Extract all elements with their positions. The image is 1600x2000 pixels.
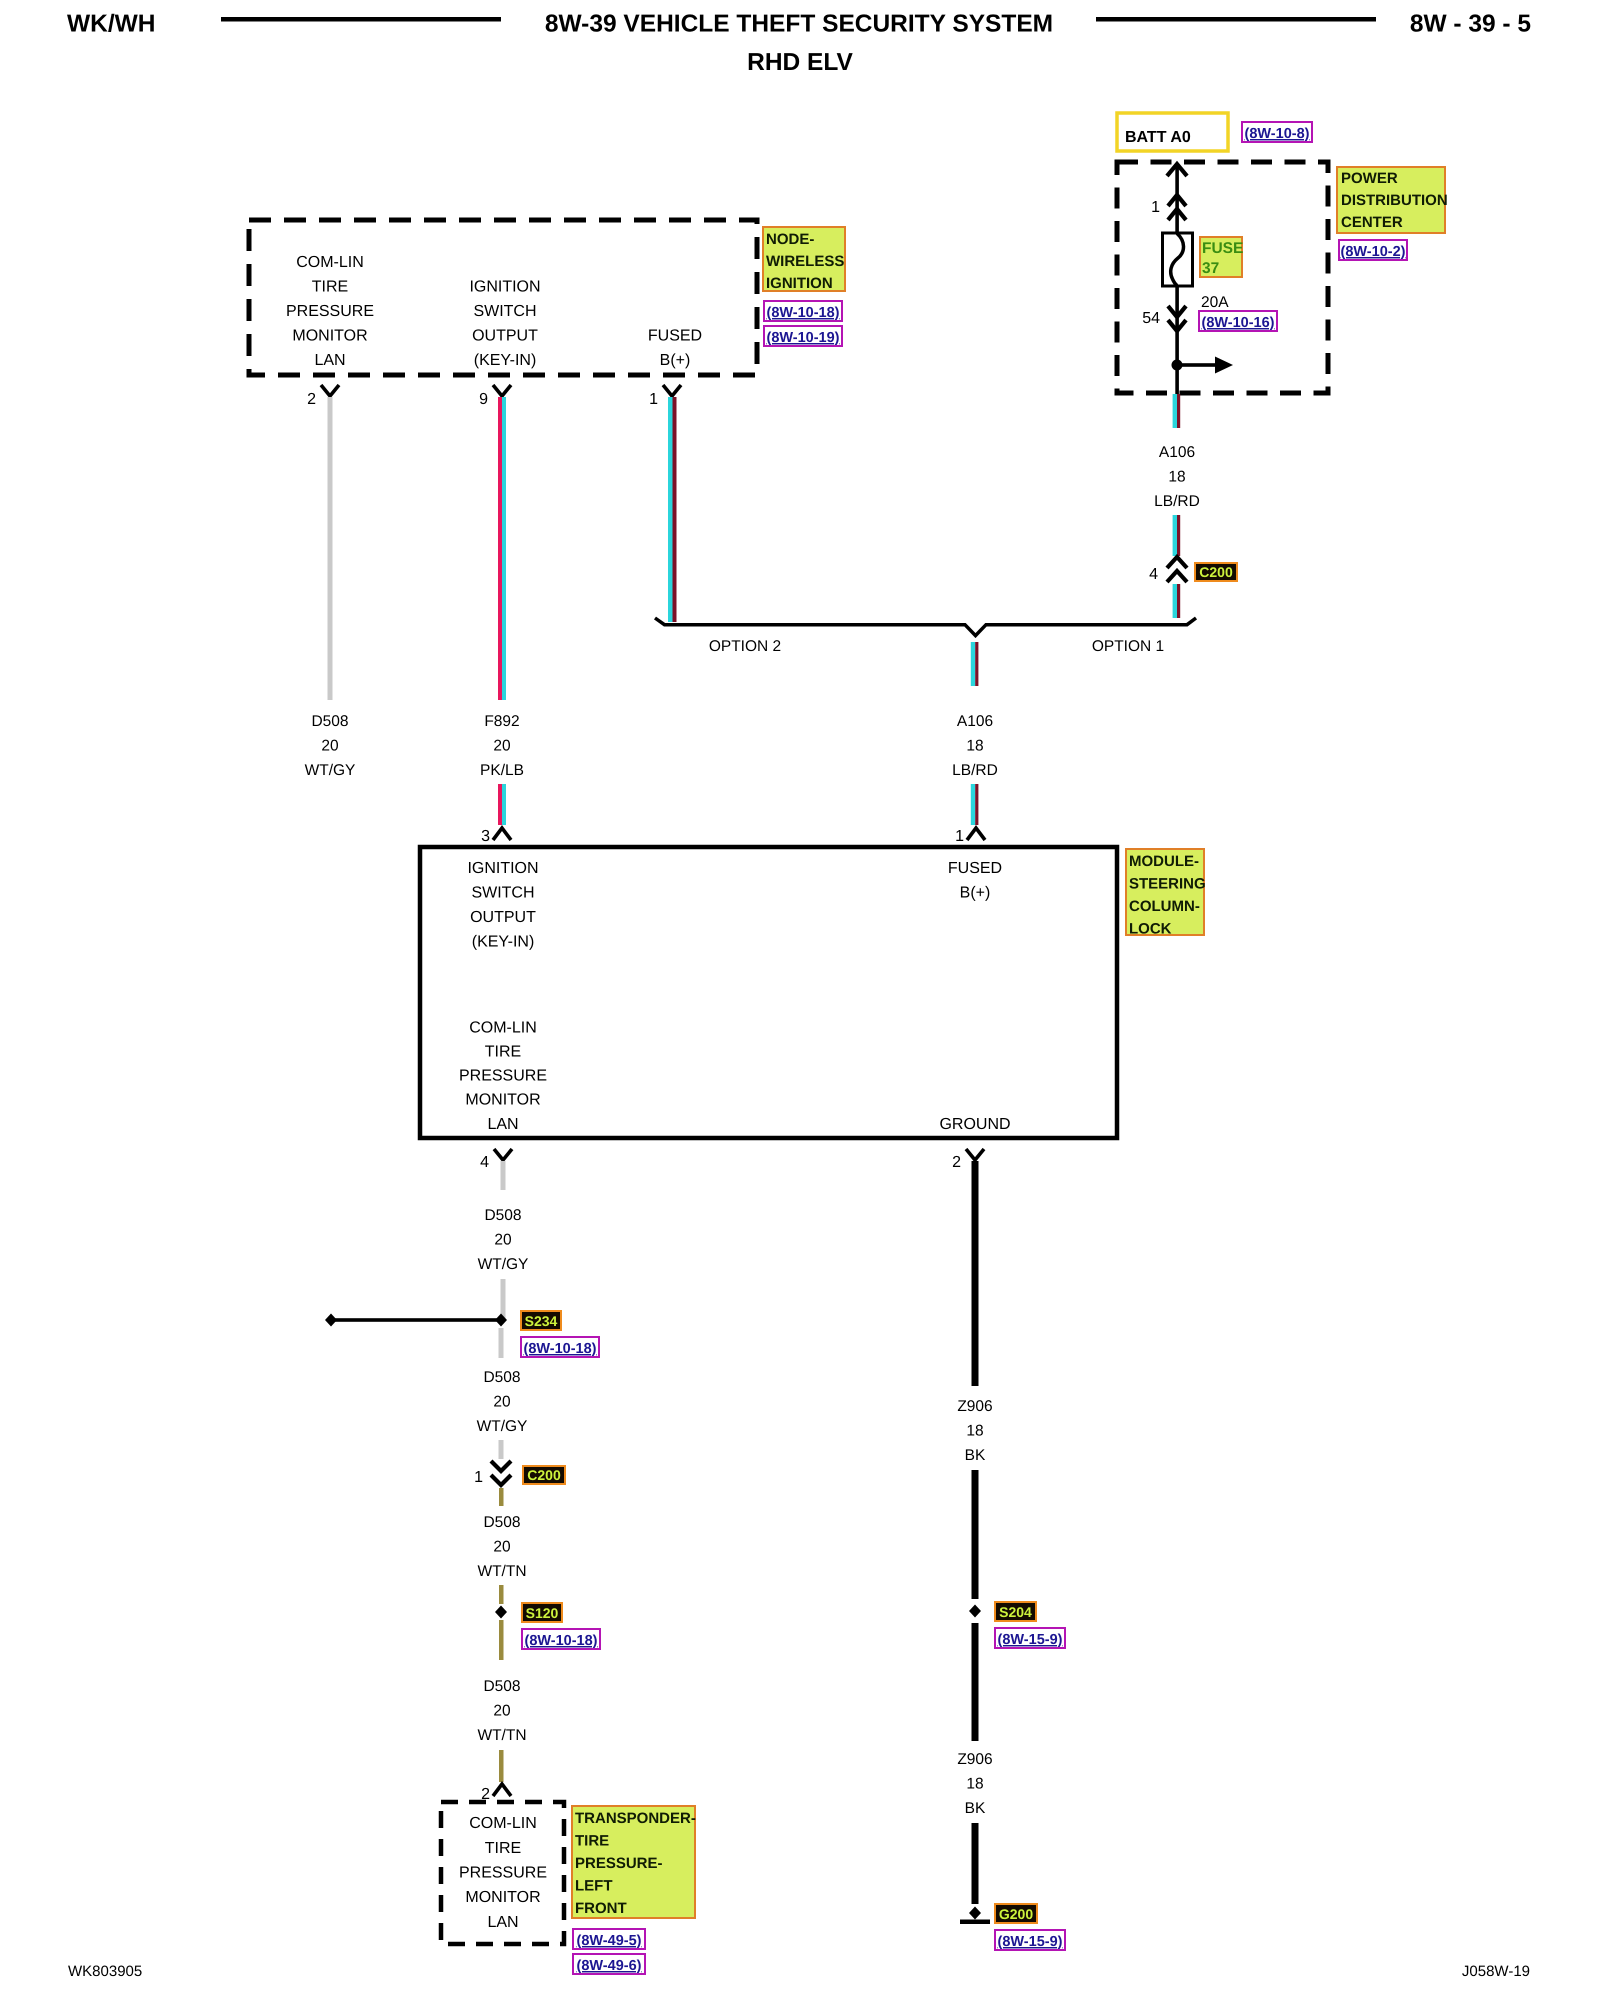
svg-text:TIRE: TIRE: [485, 1840, 521, 1857]
svg-text:A106: A106: [957, 713, 993, 730]
svg-text:1: 1: [955, 828, 964, 845]
svg-text:20A: 20A: [1201, 294, 1229, 311]
svg-text:MONITOR: MONITOR: [465, 1092, 540, 1109]
svg-text:LAN: LAN: [487, 1914, 518, 1931]
wire below S234: [499, 1328, 504, 1358]
transponder pin 2: [493, 1784, 511, 1796]
svg-text:BK: BK: [965, 1800, 986, 1817]
link 8W-10-18: [764, 301, 842, 321]
svg-text:G200: G200: [999, 1906, 1033, 1922]
connector C200 chevrons (pin 1, down): [491, 1461, 511, 1485]
splice S120: [495, 1606, 507, 1619]
header rule left: [221, 17, 501, 22]
wire below S120: [499, 1620, 504, 1660]
svg-text:COM-LIN: COM-LIN: [469, 1815, 537, 1832]
battery feed box BATT A0: [1117, 113, 1228, 151]
svg-text:MODULE-: MODULE-: [1129, 853, 1199, 870]
svg-text:(8W-15-9): (8W-15-9): [998, 1632, 1063, 1648]
svg-text:B(+): B(+): [660, 352, 691, 369]
fuse 37 label: [1200, 237, 1242, 277]
wire D508 WT/GY from node pin 2: [328, 397, 333, 700]
svg-text:20: 20: [493, 738, 511, 755]
svg-text:1: 1: [649, 391, 658, 408]
svg-text:LB/RD: LB/RD: [952, 762, 998, 779]
svg-text:FUSED: FUSED: [948, 860, 1002, 877]
svg-text:(8W-10-2): (8W-10-2): [1341, 244, 1406, 260]
svg-text:SWITCH: SWITCH: [471, 885, 534, 902]
svg-text:3: 3: [481, 828, 490, 845]
svg-text:LOCK: LOCK: [1129, 921, 1172, 938]
svg-text:LAN: LAN: [487, 1116, 518, 1133]
svg-text:S234: S234: [525, 1313, 558, 1329]
svg-text:Z906: Z906: [957, 1751, 992, 1768]
node pin 1: [663, 385, 681, 396]
wire A106 below brace: [971, 642, 975, 686]
svg-text:(KEY-IN): (KEY-IN): [474, 352, 537, 369]
svg-text:BATT A0: BATT A0: [1125, 129, 1191, 146]
connector label C200: [523, 1466, 565, 1484]
power distribution center dashed box: [1117, 162, 1328, 393]
svg-text:WIRELESS: WIRELESS: [766, 253, 844, 270]
svg-text:S204: S204: [999, 1604, 1032, 1620]
node pin 9: [493, 385, 511, 396]
svg-text:(8W-10-16): (8W-10-16): [1201, 315, 1274, 331]
svg-text:COLUMN-: COLUMN-: [1129, 898, 1200, 915]
wire resume: [501, 1279, 506, 1320]
svg-text:1: 1: [1151, 199, 1160, 216]
svg-text:(8W-10-8): (8W-10-8): [1245, 126, 1310, 142]
arrow up to BATT A0: [1167, 164, 1187, 176]
svg-text:D508: D508: [483, 1369, 520, 1386]
svg-text:WT/GY: WT/GY: [477, 1418, 528, 1435]
node-wireless ignition dashed box: [249, 220, 757, 375]
module pin 1: [967, 828, 985, 840]
svg-text:GROUND: GROUND: [939, 1116, 1010, 1133]
svg-text:TIRE: TIRE: [312, 279, 348, 296]
svg-text:(8W-10-18): (8W-10-18): [523, 1341, 596, 1357]
svg-text:20: 20: [493, 1394, 511, 1411]
wire: [499, 1750, 504, 1782]
svg-text:9: 9: [479, 391, 488, 408]
svg-text:PRESSURE: PRESSURE: [459, 1865, 547, 1882]
svg-text:BK: BK: [965, 1447, 986, 1464]
splice label S204: [995, 1602, 1036, 1621]
wire Z906 segment 2: [972, 1470, 979, 1599]
link 8W-10-8: [1242, 122, 1312, 142]
wire A106 below PDC: [1173, 394, 1177, 428]
wire resume to module pin 1: [971, 784, 975, 825]
wire fused B+ LB/RD from node pin 1: [668, 397, 673, 622]
module pin 2: [966, 1149, 984, 1160]
svg-text:OUTPUT: OUTPUT: [472, 328, 538, 345]
svg-text:COM-LIN: COM-LIN: [469, 1020, 537, 1037]
module pin 3: [493, 828, 511, 840]
connector label C200: [1195, 563, 1237, 581]
connector pin 54 chevrons (PDC bottom): [1168, 306, 1186, 331]
svg-text:20: 20: [493, 1703, 511, 1720]
svg-text:IGNITION: IGNITION: [467, 860, 538, 877]
arrow branch right: [1177, 363, 1215, 367]
svg-text:A106: A106: [1159, 444, 1195, 461]
svg-text:18: 18: [1168, 469, 1185, 486]
svg-text:2: 2: [307, 391, 316, 408]
svg-text:37: 37: [1202, 260, 1219, 277]
svg-text:18: 18: [966, 1423, 983, 1440]
power distribution center label: [1337, 167, 1445, 233]
svg-text:OPTION 2: OPTION 2: [709, 638, 781, 655]
svg-text:LAN: LAN: [314, 352, 345, 369]
wire Z906 segment 4: [972, 1823, 979, 1904]
svg-text:J058W-19: J058W-19: [1462, 1963, 1530, 1980]
wire F892 resume to module pin 3: [498, 784, 502, 825]
svg-text:WT/GY: WT/GY: [305, 762, 356, 779]
link 8W-10-16: [1199, 311, 1277, 331]
svg-text:FUSE: FUSE: [1202, 240, 1243, 257]
svg-text:C200: C200: [527, 1467, 561, 1483]
wire PDC internal feed: [1175, 165, 1179, 394]
module-steering column-lock box: [420, 847, 1117, 1138]
svg-text:MONITOR: MONITOR: [292, 328, 367, 345]
svg-text:OPTION 1: OPTION 1: [1092, 638, 1164, 655]
svg-text:2: 2: [952, 1154, 961, 1171]
svg-text:(8W-10-18): (8W-10-18): [524, 1633, 597, 1649]
ground label G200: [995, 1904, 1037, 1923]
module pin 4: [494, 1149, 512, 1160]
svg-text:PRESSURE-: PRESSURE-: [575, 1855, 663, 1872]
svg-text:18: 18: [966, 738, 983, 755]
header rule right: [1096, 17, 1376, 22]
svg-text:WT/GY: WT/GY: [478, 1256, 529, 1273]
splice label S234: [521, 1311, 561, 1330]
svg-text:C200: C200: [1199, 564, 1233, 580]
svg-text:SWITCH: SWITCH: [473, 303, 536, 320]
svg-text:OUTPUT: OUTPUT: [470, 909, 536, 926]
splice S204: [969, 1605, 981, 1618]
svg-text:4: 4: [480, 1154, 489, 1171]
svg-text:PK/LB: PK/LB: [480, 762, 524, 779]
svg-text:CENTER: CENTER: [1341, 214, 1403, 231]
svg-text:RHD ELV: RHD ELV: [747, 49, 853, 76]
wire D508 WT/TN below C200: [499, 1488, 504, 1506]
svg-text:(8W-15-9): (8W-15-9): [998, 1934, 1063, 1950]
svg-text:IGNITION: IGNITION: [766, 275, 833, 292]
wire: [499, 1440, 504, 1459]
svg-text:4: 4: [1149, 566, 1158, 583]
link 8W-10-18: [522, 1629, 600, 1649]
link 8W-10-2: [1339, 240, 1407, 260]
transponder label: [572, 1806, 695, 1918]
module-steering column-lock label: [1126, 849, 1204, 935]
junction node in PDC: [1172, 360, 1183, 371]
svg-text:PRESSURE: PRESSURE: [459, 1068, 547, 1085]
svg-text:LEFT: LEFT: [575, 1878, 613, 1895]
svg-text:IGNITION: IGNITION: [469, 279, 540, 296]
svg-text:NODE-: NODE-: [766, 231, 814, 248]
svg-text:54: 54: [1142, 310, 1160, 327]
svg-text:WK803905: WK803905: [68, 1963, 142, 1980]
wire Z906 BK segment 1: [972, 1161, 979, 1386]
svg-text:8W - 39 - 5: 8W - 39 - 5: [1410, 11, 1531, 38]
svg-text:TIRE: TIRE: [485, 1044, 521, 1061]
connector C200 chevrons (pin 4): [1167, 557, 1187, 582]
svg-text:FRONT: FRONT: [575, 1900, 627, 1917]
svg-text:LB/RD: LB/RD: [1154, 493, 1200, 510]
option brace: [655, 618, 1196, 636]
svg-text:D508: D508: [311, 713, 348, 730]
svg-text:(8W-10-18): (8W-10-18): [766, 305, 839, 321]
svg-text:COM-LIN: COM-LIN: [296, 254, 364, 271]
transponder dashed box: [441, 1802, 564, 1944]
svg-text:8W-39 VEHICLE THEFT SECURITY S: 8W-39 VEHICLE THEFT SECURITY SYSTEM: [545, 11, 1053, 38]
fuse 37 symbol: [1163, 233, 1193, 286]
svg-text:18: 18: [966, 1776, 983, 1793]
svg-text:(8W-10-19): (8W-10-19): [766, 330, 839, 346]
svg-text:D508: D508: [483, 1678, 520, 1695]
svg-text:D508: D508: [483, 1514, 520, 1531]
wire: [1173, 584, 1177, 618]
svg-text:S120: S120: [526, 1605, 559, 1621]
svg-text:D508: D508: [484, 1207, 521, 1224]
link 8W-49-6: [573, 1954, 645, 1974]
svg-text:F892: F892: [484, 713, 519, 730]
link 8W-10-18: [521, 1337, 599, 1357]
svg-text:STEERING: STEERING: [1129, 876, 1206, 893]
svg-text:20: 20: [494, 1232, 512, 1249]
link 8W-15-9: [995, 1628, 1065, 1648]
svg-text:(8W-49-5): (8W-49-5): [577, 1933, 642, 1949]
svg-text:Z906: Z906: [957, 1398, 992, 1415]
link 8W-49-5: [573, 1929, 645, 1949]
wire: [499, 1585, 504, 1604]
node pin 2: [321, 385, 339, 396]
svg-text:POWER: POWER: [1341, 170, 1398, 187]
wire F892 PK/LB from node pin 9: [498, 397, 502, 700]
svg-text:WK/WH: WK/WH: [67, 11, 155, 38]
wire Z906 segment 3: [972, 1623, 979, 1741]
splice label S120: [522, 1603, 562, 1622]
ground G200: [969, 1907, 981, 1920]
svg-text:FUSED: FUSED: [648, 328, 702, 345]
splice S234: [331, 1318, 501, 1322]
svg-text:20: 20: [493, 1539, 511, 1556]
svg-text:TRANSPONDER-: TRANSPONDER-: [575, 1810, 696, 1827]
svg-text:MONITOR: MONITOR: [465, 1889, 540, 1906]
svg-text:TIRE: TIRE: [575, 1833, 609, 1850]
svg-text:WT/TN: WT/TN: [477, 1727, 526, 1744]
link 8W-15-9: [995, 1930, 1065, 1950]
svg-text:DISTRIBUTION: DISTRIBUTION: [1341, 192, 1448, 209]
svg-text:1: 1: [474, 1469, 483, 1486]
link 8W-10-19: [764, 326, 842, 346]
svg-text:20: 20: [321, 738, 339, 755]
svg-text:PRESSURE: PRESSURE: [286, 303, 374, 320]
svg-text:(8W-49-6): (8W-49-6): [577, 1958, 642, 1974]
svg-text:WT/TN: WT/TN: [477, 1563, 526, 1580]
node-wireless ignition label: [763, 227, 845, 291]
svg-text:B(+): B(+): [960, 885, 991, 902]
wire: [1173, 515, 1177, 556]
svg-text:(KEY-IN): (KEY-IN): [472, 934, 535, 951]
wire stub D508 below pin 4: [501, 1161, 506, 1190]
connector pin 1 chevrons (PDC top): [1168, 195, 1186, 220]
